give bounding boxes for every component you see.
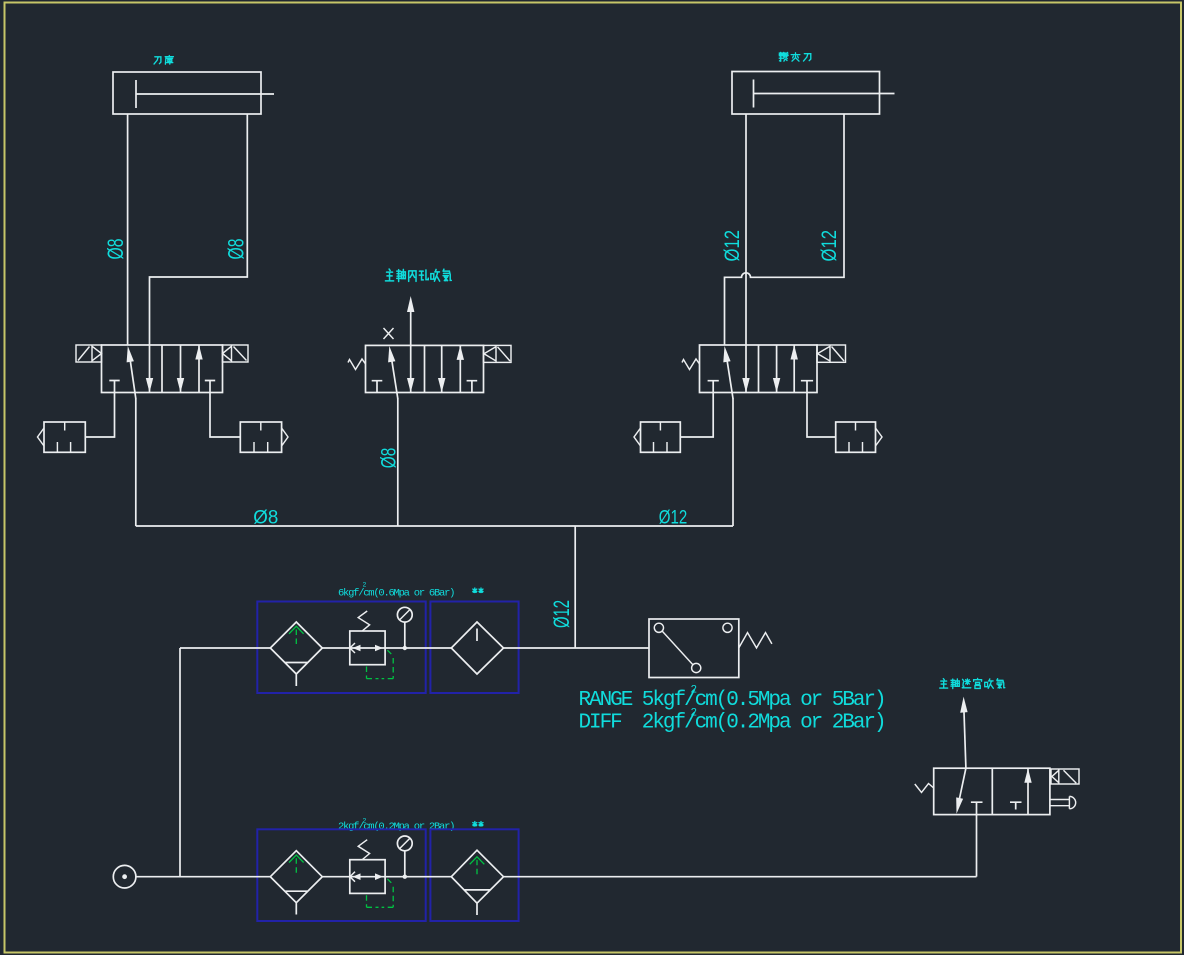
valve A blocked port T left: [109, 381, 119, 393]
label 刀庫 (tool magazine): [154, 56, 173, 65]
valve B right position up arrow: [457, 345, 464, 392]
svg-text:Ø12: Ø12: [721, 230, 745, 262]
reference marks **: [473, 588, 483, 592]
valve A right position down arrow: [177, 345, 184, 393]
wire valve A exhaust right to muffler: [210, 393, 240, 438]
valve D right position up arrow: [1024, 768, 1031, 814]
valve B flow vertical with down arrow: [407, 345, 414, 392]
label 2kgf/cm2(0.2Mpa or 2Bar): [338, 817, 454, 833]
valve A left solenoid pilot: [76, 345, 102, 362]
valve B vent line with up arrow: [407, 296, 414, 345]
wire valve B supply port down to manifold: [397, 398, 399, 526]
wire riser to valve D supply port: [976, 815, 978, 877]
label 主軸迷宮吹氣 (spindle labyrinth air blow): [940, 678, 1005, 688]
valve D manual override button: [1050, 796, 1076, 808]
valve D solenoid pilot: [1051, 769, 1079, 784]
svg-text:Ø12: Ø12: [549, 600, 573, 628]
wire valve A supply port down to manifold: [135, 398, 137, 526]
valve A flow diagonal with up arrow: [127, 346, 136, 399]
pressure switch PS1: [649, 619, 739, 678]
label DIFF 2kgf/cm2(0.2Mpa or 2Bar): [579, 707, 885, 734]
valve C flow diagonal with up arrow: [723, 346, 733, 399]
svg-text:2: 2: [363, 817, 367, 824]
valve A flow vertical with down arrow: [146, 345, 153, 393]
blue frame around mist separator (low pressure): [430, 829, 518, 921]
valve D return spring left: [915, 784, 934, 793]
valve B flow diagonal with up arrow: [388, 346, 398, 399]
label 鬆夾刀 (tool clamp): [779, 52, 811, 61]
svg-text:2: 2: [363, 582, 367, 589]
valve D vent line with up arrow: [960, 697, 967, 768]
svg-text:RANGE 5kgf/cm(0.5Mpa or 5Bar): RANGE 5kgf/cm(0.5Mpa or 5Bar): [579, 689, 885, 712]
valve A right position up arrow: [195, 345, 202, 393]
valve D flow diagonal with down arrow: [956, 768, 966, 814]
filter F1 diamond: [270, 622, 322, 686]
valve B right solenoid pilot: [484, 345, 512, 362]
wire source to filter F2: [136, 876, 270, 878]
valve D blocked port T (left square): [971, 802, 983, 814]
regulator R2 adjustment spring: [358, 840, 369, 860]
svg-text:Ø8: Ø8: [377, 448, 401, 469]
svg-text:Ø12: Ø12: [659, 508, 688, 529]
svg-text:6kgf/cm(0.6Mpa or 6Bar): 6kgf/cm(0.6Mpa or 6Bar): [338, 588, 454, 600]
valve A 5/2 body: [102, 345, 223, 393]
wire lubricator L1 to pressure switch PS1: [504, 647, 650, 649]
wire branch to high-pressure filter: [180, 647, 270, 649]
pressure gauge G1: [397, 607, 412, 650]
valve D blocked port T (right square): [1010, 802, 1022, 809]
filter F2 diamond: [270, 851, 322, 915]
valve C 5/2 body: [700, 345, 818, 393]
muffler C right: [836, 422, 882, 452]
cylinder A (tool magazine actuator): [113, 72, 274, 114]
reference marks ** (low pressure): [473, 822, 483, 826]
wire manifold drop to FRL output line: [574, 526, 576, 648]
wire branch riser to high pressure line: [179, 648, 181, 877]
filter F1 green element: [289, 626, 304, 647]
mist separator green element: [470, 857, 485, 876]
valve B blocked pilot port X mark: [384, 328, 394, 339]
svg-text:DIFF 2kgf/cm(0.2Mpa or 2Bar): DIFF 2kgf/cm(0.2Mpa or 2Bar): [579, 712, 885, 735]
wire filter F1 to regulator R1: [322, 647, 350, 649]
valve B return spring left: [348, 359, 366, 370]
regulator R1 adjustment spring: [358, 611, 369, 631]
pressure switch PS1 spring: [739, 633, 772, 648]
valve B blocked port T right: [467, 381, 478, 393]
wire regulator R2 to mist separator: [385, 876, 451, 878]
valve D 3/2 body: [934, 768, 1050, 814]
air supply source: [113, 865, 136, 888]
manifold wire: [136, 525, 733, 527]
regulator R1 pilot dashed lines: [367, 650, 394, 678]
valve C blocked port T left: [708, 381, 719, 393]
wire regulator R1 to lubricator L1: [385, 647, 451, 649]
filter F2 green element: [289, 855, 304, 876]
valve C return spring left: [682, 359, 700, 370]
blue frame around filter-regulator (low pressure): [257, 829, 425, 921]
blue frame around filter-regulator (high pressure): [257, 602, 425, 694]
wire filter F2 to regulator R2: [322, 876, 350, 878]
regulator R2 pilot dashed lines: [367, 879, 394, 907]
svg-text:Ø8: Ø8: [224, 239, 249, 260]
wire cylinder A right port down, bend left, down to valve A port 2: [150, 114, 248, 345]
label 主軸內孔吹氣 (spindle bore air blow): [385, 269, 451, 282]
wire valve C exhaust right to muffler: [807, 393, 836, 438]
muffler C left: [634, 422, 680, 452]
wire valve C supply port down to manifold: [732, 398, 734, 526]
lubricator L1 diamond: [451, 622, 503, 674]
svg-text:2: 2: [691, 707, 698, 719]
label 6kgf/cm2(0.6Mpa or 6Bar): [338, 582, 454, 600]
blue frame around lubricator (high pressure): [430, 602, 518, 694]
regulator R1 body: [350, 631, 385, 665]
label RANGE 5kgf/cm2(0.5Mpa or 5Bar): [579, 685, 885, 712]
mist separator diamond: [451, 850, 503, 915]
valve A right solenoid pilot: [223, 345, 249, 362]
valve C right position up arrow: [791, 345, 798, 393]
valve A blocked port T right: [205, 381, 215, 393]
svg-text:Ø8: Ø8: [103, 239, 128, 260]
svg-text:2: 2: [691, 685, 698, 697]
valve C right solenoid pilot: [817, 345, 846, 362]
svg-text:2kgf/cm(0.2Mpa or 2Bar): 2kgf/cm(0.2Mpa or 2Bar): [338, 821, 454, 833]
wire cylinder A left port down to valve A port 4: [127, 114, 129, 345]
wire valve A exhaust left to muffler: [85, 393, 114, 438]
svg-text:Ø8: Ø8: [253, 508, 278, 529]
cylinder B (clamp actuator): [732, 72, 895, 115]
wire cylinder B left port straight down to valve C: [745, 114, 747, 345]
valve C blocked port T right: [801, 381, 813, 393]
wire cylinder B right port down, bend left with jump arc, down to valve C: [725, 114, 845, 345]
valve C flow vertical with down arrow: [742, 345, 749, 393]
valve B right position down arrow: [438, 345, 445, 392]
wire mist separator to valve D riser: [504, 876, 977, 878]
wire valve C exhaust left to muffler: [680, 393, 713, 438]
pressure gauge G2: [397, 836, 412, 879]
regulator R2 body: [350, 860, 385, 894]
valve B 3/2 body: [366, 345, 484, 392]
svg-text:Ø12: Ø12: [818, 230, 842, 262]
muffler A left: [38, 422, 86, 452]
valve C right position down arrow: [773, 345, 780, 393]
muffler A right: [240, 422, 288, 452]
valve B blocked port T left: [372, 381, 383, 393]
